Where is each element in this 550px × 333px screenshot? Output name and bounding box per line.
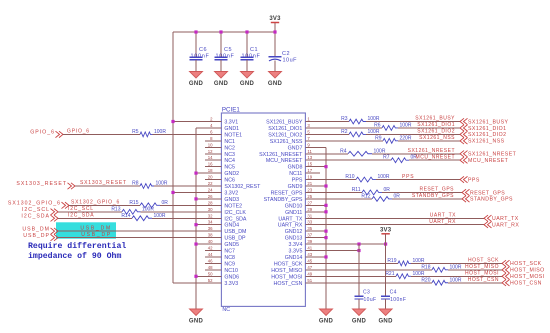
note differential impedance xyxy=(28,241,126,261)
junction xyxy=(194,30,197,33)
resistor R5 xyxy=(132,129,166,137)
svg-text:25: 25 xyxy=(307,194,312,199)
svg-text:R20: R20 xyxy=(421,277,430,283)
pin 13 MCU_NRESET xyxy=(266,155,320,164)
wire GND6 xyxy=(196,275,221,277)
wire C3 gnd xyxy=(358,299,360,309)
pin 21 GND9 xyxy=(288,181,320,190)
svg-text:35: 35 xyxy=(307,226,312,231)
pin 48 NC10 xyxy=(205,265,238,274)
svg-text:40: 40 xyxy=(208,239,213,244)
wire SX1303_RESET xyxy=(75,185,140,187)
svg-text:14: 14 xyxy=(208,155,213,160)
wire 3.3V1 xyxy=(173,121,221,123)
svg-text:NC11: NC11 xyxy=(289,171,302,177)
svg-text:17: 17 xyxy=(307,168,312,173)
svg-text:51: 51 xyxy=(307,278,312,283)
pin 46 NC9 xyxy=(205,258,235,267)
svg-text:44: 44 xyxy=(208,252,213,257)
wire C6 top xyxy=(195,32,197,57)
svg-text:48: 48 xyxy=(208,265,213,270)
svg-text:3V3: 3V3 xyxy=(269,16,281,22)
svg-text:50: 50 xyxy=(208,271,213,276)
pin 14 NC4 xyxy=(205,155,235,164)
port HOST_CSN xyxy=(502,280,542,287)
svg-text:GND9: GND9 xyxy=(288,184,303,190)
port RESET_GPS xyxy=(462,189,505,196)
wire GND4 xyxy=(196,224,221,226)
svg-text:GND6: GND6 xyxy=(224,274,239,280)
pin 23 RESET_GPS xyxy=(271,187,320,196)
svg-text:GPIO_6: GPIO_6 xyxy=(30,130,55,136)
svg-text:HOST_SCK: HOST_SCK xyxy=(274,261,303,267)
svg-text:31: 31 xyxy=(307,213,312,218)
pin 33 UART_RX xyxy=(278,220,320,229)
svg-text:GND4: GND4 xyxy=(224,223,239,229)
junction xyxy=(324,230,327,233)
wire C5 top xyxy=(220,32,222,57)
svg-text:23: 23 xyxy=(307,187,312,192)
svg-text:SX1261_DIO2: SX1261_DIO2 xyxy=(417,129,455,135)
svg-text:GND12: GND12 xyxy=(285,229,303,235)
power 3V3 top xyxy=(269,16,281,23)
wire GND2 xyxy=(196,172,221,174)
resistor R8 xyxy=(132,181,168,189)
svg-text:PPS: PPS xyxy=(402,174,414,180)
svg-text:SX1261_NRESET: SX1261_NRESET xyxy=(468,152,517,158)
svg-text:37: 37 xyxy=(307,233,312,238)
junction xyxy=(219,30,222,33)
port UART_TX xyxy=(484,215,519,222)
pin 2 3.3V1 xyxy=(205,117,238,126)
junction xyxy=(245,30,248,33)
svg-text:100nF: 100nF xyxy=(216,53,235,59)
junction xyxy=(324,184,327,187)
svg-text:RESET_GPS: RESET_GPS xyxy=(419,187,454,193)
wire 3.3V4 xyxy=(320,243,386,245)
wire R5 to pin 6 xyxy=(153,133,222,135)
svg-text:HOST_CSN: HOST_CSN xyxy=(510,281,542,287)
wire GND10 xyxy=(320,204,326,206)
svg-text:NC2: NC2 xyxy=(224,145,235,151)
resistor R11 xyxy=(352,187,391,195)
svg-text:27: 27 xyxy=(307,200,312,205)
svg-text:I2C_SDA: I2C_SDA xyxy=(21,213,50,219)
svg-text:USB_DP: USB_DP xyxy=(81,232,112,238)
pin 49 HOST_MOSI xyxy=(271,271,320,280)
wire SX1261_BUSY b xyxy=(366,121,460,123)
svg-text:30: 30 xyxy=(208,207,213,212)
pin 16 NC5 xyxy=(205,162,235,171)
wire SX1261_DIO1 b xyxy=(398,127,460,129)
svg-text:R18: R18 xyxy=(421,264,430,270)
svg-text:SX1261_DIO2: SX1261_DIO2 xyxy=(468,132,506,138)
pin 47 HOST_MISO xyxy=(271,265,320,274)
svg-text:HOST_SCK: HOST_SCK xyxy=(510,261,542,267)
pin 15 GND8 xyxy=(288,162,320,171)
svg-text:NC9: NC9 xyxy=(224,261,235,267)
svg-text:GND: GND xyxy=(214,81,229,87)
svg-text:GND11: GND11 xyxy=(285,210,302,216)
wire PPS a xyxy=(320,179,356,181)
svg-text:C3: C3 xyxy=(363,290,370,296)
svg-text:HOST_CSN: HOST_CSN xyxy=(274,281,303,287)
svg-text:R5: R5 xyxy=(132,129,139,135)
junction xyxy=(357,242,360,245)
svg-text:GND: GND xyxy=(240,81,255,87)
svg-text:SX1261_NRESET: SX1261_NRESET xyxy=(259,152,303,158)
wire SX1261_NSS b xyxy=(398,140,460,142)
svg-text:GND1: GND1 xyxy=(224,126,239,132)
op-amp PCIE1 connector box xyxy=(221,113,305,306)
capacitor C3 xyxy=(355,290,377,303)
svg-text:GND: GND xyxy=(189,81,204,87)
svg-text:15: 15 xyxy=(307,162,312,167)
resistor R3 xyxy=(341,116,380,124)
svg-text:GND2: GND2 xyxy=(224,171,239,177)
svg-text:49: 49 xyxy=(307,271,312,276)
pin 32 I2C_SDA xyxy=(205,213,247,222)
svg-text:18: 18 xyxy=(208,168,213,173)
svg-text:NOTE2: NOTE2 xyxy=(224,203,242,209)
svg-text:100nF: 100nF xyxy=(242,53,261,59)
svg-text:SX1261_BUSY: SX1261_BUSY xyxy=(266,120,303,126)
pin 39 3.3V4 xyxy=(289,239,320,248)
pin 36 USB_DM xyxy=(205,226,246,235)
pin 50 GND6 xyxy=(205,271,239,280)
svg-text:UART_TX: UART_TX xyxy=(430,212,456,218)
svg-text:GND: GND xyxy=(189,318,204,324)
svg-text:100nF: 100nF xyxy=(191,53,210,59)
ground xyxy=(319,309,334,324)
svg-text:41: 41 xyxy=(307,246,312,251)
wire HOST_SCK a xyxy=(320,262,398,264)
svg-text:I2C_SDA: I2C_SDA xyxy=(224,216,247,222)
wire MCU_NRESET a xyxy=(320,159,391,161)
wire STANDBY_GPS b xyxy=(392,198,462,200)
wire R13 to pin 30 xyxy=(141,211,222,213)
svg-text:PPS: PPS xyxy=(292,178,303,184)
pin 37 GND13 xyxy=(285,233,320,242)
wire GND9 xyxy=(320,185,326,187)
wire UART_RX xyxy=(320,224,484,226)
svg-text:45: 45 xyxy=(307,258,312,263)
capacitor C4 xyxy=(381,290,406,303)
svg-text:SX1261_DIO1: SX1261_DIO1 xyxy=(268,126,302,132)
svg-text:R19: R19 xyxy=(387,258,396,264)
wire R15 to pin 28 xyxy=(160,204,221,206)
wire USB_DM xyxy=(58,230,221,232)
svg-text:SX1303_RESET: SX1303_RESET xyxy=(16,181,67,187)
resistor R6 xyxy=(374,122,412,130)
svg-text:29: 29 xyxy=(307,207,312,212)
port USB_DM xyxy=(22,226,58,234)
ground xyxy=(352,309,367,324)
svg-text:NC8: NC8 xyxy=(224,255,235,261)
wire C1 top xyxy=(246,32,248,57)
pin 41 3.3V5 xyxy=(289,246,320,255)
wire C5 bottom xyxy=(220,60,222,72)
resistor R7 xyxy=(383,155,417,163)
wire HOST_MOSI a xyxy=(320,275,396,277)
wire C2 top xyxy=(274,23,276,57)
resistor R19 xyxy=(387,258,425,266)
port SX1261_DIO1 xyxy=(460,125,506,132)
pin 9 GND7 xyxy=(288,142,320,151)
pin 18 GND2 xyxy=(205,168,239,177)
pin 4 GND1 xyxy=(205,123,239,132)
svg-text:HOST_MISO: HOST_MISO xyxy=(271,268,302,274)
pin 12 NC3 xyxy=(205,149,235,158)
pin 8 NC1 xyxy=(205,136,235,145)
svg-text:HOST_MOSI: HOST_MOSI xyxy=(510,274,545,280)
pin 38 USB_DP xyxy=(205,233,246,242)
wire 3.3V2 xyxy=(173,191,221,193)
svg-text:SX1261_NSS: SX1261_NSS xyxy=(270,139,303,145)
resistor R12 xyxy=(361,193,400,201)
pin 42 NC7 xyxy=(205,246,235,255)
junction xyxy=(273,30,276,33)
pin 5 SX1261_DIO2 xyxy=(268,129,320,138)
svg-text:R10: R10 xyxy=(345,174,354,180)
svg-text:10uF: 10uF xyxy=(283,58,298,64)
wire I2C_SCL xyxy=(58,211,122,213)
svg-text:STANDBY_GPS: STANDBY_GPS xyxy=(412,193,454,199)
svg-text:46: 46 xyxy=(208,258,213,263)
ground xyxy=(189,309,204,324)
port I2C_SCL xyxy=(22,207,58,215)
ground xyxy=(240,72,255,87)
pin 17 NC11 xyxy=(289,168,320,177)
svg-text:R7: R7 xyxy=(383,155,390,161)
svg-text:HOST_CSN: HOST_CSN xyxy=(468,277,499,283)
resistor R21 xyxy=(385,271,425,279)
junction xyxy=(194,242,197,245)
wire I2C_SDA xyxy=(58,217,132,219)
wire GND14 xyxy=(320,256,326,258)
svg-text:SX1261_NSS: SX1261_NSS xyxy=(419,135,455,141)
wire SX1261_BUSY a xyxy=(320,121,349,123)
svg-text:34: 34 xyxy=(208,220,213,225)
svg-text:SX1302_GPIO_6: SX1302_GPIO_6 xyxy=(8,201,61,207)
svg-text:impedance of 90 Ohm: impedance of 90 Ohm xyxy=(28,251,121,261)
svg-text:SX1261_DIO1: SX1261_DIO1 xyxy=(417,122,455,128)
svg-text:HOST_MOSI: HOST_MOSI xyxy=(465,271,499,277)
svg-text:22: 22 xyxy=(208,181,213,186)
resistor R10 xyxy=(345,174,390,182)
svg-text:USB_DP: USB_DP xyxy=(23,233,50,239)
port SX1302_GPIO_6 xyxy=(8,201,69,209)
svg-text:GPIO_6: GPIO_6 xyxy=(67,129,90,135)
svg-text:HOST_MISO: HOST_MISO xyxy=(510,268,545,274)
pin 45 HOST_SCK xyxy=(274,258,320,267)
svg-text:NC: NC xyxy=(222,307,230,313)
wire GND8 xyxy=(320,166,326,168)
svg-text:3.3V4: 3.3V4 xyxy=(289,242,303,248)
wire PPS b xyxy=(376,179,460,181)
wire HOST_MOSI b xyxy=(411,275,502,277)
pin 24 3.3V2 xyxy=(205,187,238,196)
svg-text:NC1: NC1 xyxy=(224,139,235,145)
svg-text:10: 10 xyxy=(208,142,213,147)
svg-text:GND: GND xyxy=(352,318,367,324)
svg-text:SX1261_DIO1: SX1261_DIO1 xyxy=(468,126,506,132)
svg-text:NC3: NC3 xyxy=(224,152,235,158)
junction xyxy=(194,172,197,175)
wire 3.3V5 xyxy=(320,250,359,252)
svg-text:UART_RX: UART_RX xyxy=(429,219,456,225)
pin 1 SX1261_BUSY xyxy=(266,117,320,126)
pin 44 NC8 xyxy=(205,252,235,261)
wire USB_DP xyxy=(58,237,221,239)
pin 52 3.3V3 xyxy=(205,278,238,287)
svg-text:HOST_MOSI: HOST_MOSI xyxy=(271,274,302,280)
svg-text:GND14: GND14 xyxy=(285,255,303,261)
svg-text:GND10: GND10 xyxy=(285,203,303,209)
junction xyxy=(324,204,327,207)
port SX1303_RESET xyxy=(16,181,75,189)
svg-text:R4: R4 xyxy=(340,148,347,154)
svg-text:3.3V5: 3.3V5 xyxy=(289,249,303,255)
svg-text:19: 19 xyxy=(307,175,312,180)
svg-text:R9: R9 xyxy=(375,135,382,141)
wire HOST_MISO b xyxy=(448,269,502,271)
pin 19 PPS xyxy=(292,175,320,184)
svg-text:3.3V1: 3.3V1 xyxy=(224,120,238,126)
svg-text:3V3: 3V3 xyxy=(380,227,392,233)
svg-text:STANDBY_GPS: STANDBY_GPS xyxy=(470,197,513,203)
wire SX1261_NRESET a xyxy=(320,153,348,155)
svg-text:USB_DM: USB_DM xyxy=(22,226,50,232)
wire MCU_NRESET b xyxy=(409,159,460,161)
svg-text:39: 39 xyxy=(307,239,312,244)
wire 3.3V3 xyxy=(173,282,221,284)
wire SX1261_NRESET b xyxy=(372,153,460,155)
svg-text:3.3V2: 3.3V2 xyxy=(224,190,238,196)
svg-text:C6: C6 xyxy=(199,47,207,53)
resistor R14 xyxy=(121,213,166,221)
junction xyxy=(171,191,174,194)
junction xyxy=(324,165,327,168)
svg-text:43: 43 xyxy=(307,252,312,257)
svg-text:R11: R11 xyxy=(352,187,361,193)
svg-text:I2C_SCL: I2C_SCL xyxy=(68,206,94,212)
resistor R15 xyxy=(129,200,168,208)
capacitor C2 xyxy=(269,51,298,64)
svg-text:GND8: GND8 xyxy=(288,165,303,171)
wire 3V3 left rail xyxy=(172,32,174,283)
svg-text:47: 47 xyxy=(307,265,312,270)
svg-text:R3: R3 xyxy=(341,116,348,122)
svg-text:SX1261_BUSY: SX1261_BUSY xyxy=(468,119,509,125)
port GPIO_6 xyxy=(30,130,63,138)
port SX1261_NSS xyxy=(460,138,505,145)
pin 28 NOTE2 xyxy=(205,200,242,209)
port UART_RX xyxy=(484,222,519,229)
svg-text:I2C_CLK: I2C_CLK xyxy=(224,210,246,216)
svg-text:20: 20 xyxy=(208,175,213,180)
svg-text:RESET_GPS: RESET_GPS xyxy=(470,190,505,196)
port USB_DP xyxy=(23,233,58,241)
pin 43 GND14 xyxy=(285,252,320,261)
pin 35 GND12 xyxy=(285,226,320,235)
wire R14 to pin 32 xyxy=(152,217,221,219)
svg-text:HOST_MISO: HOST_MISO xyxy=(465,264,499,270)
svg-text:NC7: NC7 xyxy=(224,249,235,255)
svg-text:MCU_NRESET: MCU_NRESET xyxy=(416,154,455,160)
svg-text:36: 36 xyxy=(208,226,213,231)
junction xyxy=(324,255,327,258)
svg-text:I2C_SDA: I2C_SDA xyxy=(68,212,94,218)
pin 22 SX1302_REST xyxy=(205,181,261,190)
svg-text:R2: R2 xyxy=(341,129,348,135)
svg-text:42: 42 xyxy=(208,246,213,251)
svg-text:NC4: NC4 xyxy=(224,158,235,164)
pin 6 NOTE1 xyxy=(205,129,242,138)
junction xyxy=(324,236,327,239)
port SX1261_DIO2 xyxy=(460,131,506,138)
svg-text:UART_RX: UART_RX xyxy=(492,223,519,229)
wire SX1261_DIO2 b xyxy=(366,133,460,135)
svg-text:HOST_SCK: HOST_SCK xyxy=(468,258,499,264)
wire GND12 xyxy=(320,230,326,232)
svg-text:C1: C1 xyxy=(250,47,258,53)
port HOST_MISO xyxy=(502,267,545,274)
wire STANDBY_GPS a xyxy=(320,198,372,200)
svg-text:13: 13 xyxy=(307,155,312,160)
ground xyxy=(189,72,204,87)
pin 20 NC6 xyxy=(205,175,235,184)
svg-text:24: 24 xyxy=(208,187,213,192)
svg-text:USB_DM: USB_DM xyxy=(80,225,112,231)
svg-text:R12: R12 xyxy=(361,193,370,199)
pin 30 I2C_CLK xyxy=(205,207,246,216)
svg-text:SX1302_GPIO_6: SX1302_GPIO_6 xyxy=(71,200,120,206)
port HOST_SCK xyxy=(502,260,542,267)
wire GND left rail xyxy=(195,128,197,309)
svg-text:C4: C4 xyxy=(390,290,397,296)
wire HOST_MISO a xyxy=(320,269,432,271)
svg-text:NC6: NC6 xyxy=(224,178,235,184)
port MCU_NRESET xyxy=(460,157,509,164)
wire HOST_CSN a xyxy=(320,282,432,284)
wire C2 bottom xyxy=(274,61,276,72)
svg-text:I2C_SCL: I2C_SCL xyxy=(22,207,50,213)
svg-text:USB_DP: USB_DP xyxy=(224,236,246,242)
svg-text:STANDBY_GPS: STANDBY_GPS xyxy=(264,197,303,203)
svg-text:NOTE1: NOTE1 xyxy=(224,132,242,138)
resistor R20 xyxy=(421,277,462,285)
resistor R18 xyxy=(421,264,462,272)
svg-text:GND: GND xyxy=(319,318,334,324)
node USB highlight xyxy=(56,222,116,238)
svg-text:UART_TX: UART_TX xyxy=(492,216,519,222)
wire C3 rail xyxy=(358,244,360,296)
svg-text:UART_TX: UART_TX xyxy=(278,216,303,222)
port PPS xyxy=(460,176,480,183)
wire SX1302_GPIO_6 xyxy=(69,204,140,206)
ground xyxy=(214,72,229,87)
svg-text:Require differential: Require differential xyxy=(28,241,126,251)
svg-text:MCU_NRESET: MCU_NRESET xyxy=(266,158,303,164)
wire GND7 xyxy=(320,146,326,148)
port SX1261_NRESET xyxy=(460,151,517,158)
wire SX1261_DIO2 a xyxy=(320,133,349,135)
wire HOST_SCK b xyxy=(411,262,502,264)
svg-text:16: 16 xyxy=(208,162,213,167)
svg-text:C5: C5 xyxy=(224,47,232,53)
wire 3V3 right drop xyxy=(385,234,387,296)
